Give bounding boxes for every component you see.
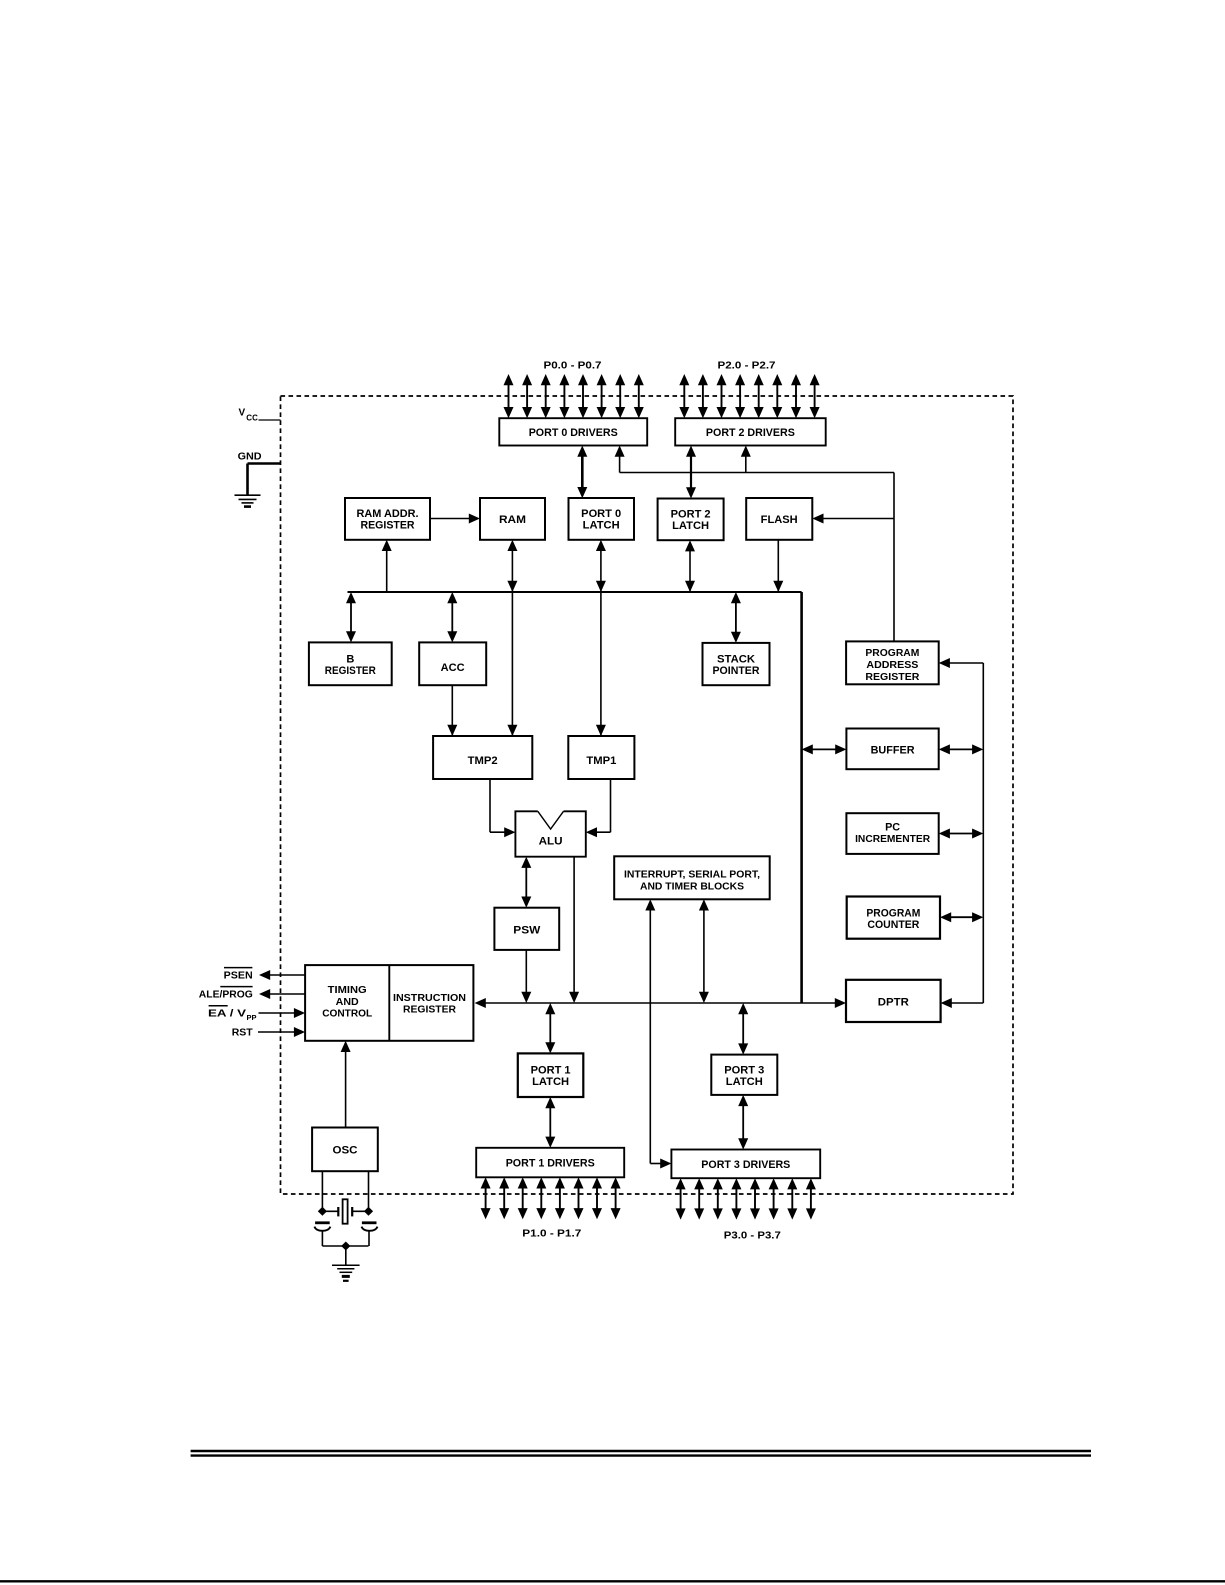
wire P1.1 pin arrow <box>499 1177 509 1219</box>
wire ALU to PSW <box>521 857 531 908</box>
wire interrupt block to control line <box>699 899 709 1003</box>
footer double rule <box>191 1451 1091 1456</box>
svg-text:PC: PC <box>885 821 900 833</box>
svg-text:REGISTER: REGISTER <box>325 665 376 677</box>
block PORT 2 DRIVERS <box>675 418 826 445</box>
block TMP1 <box>568 736 634 779</box>
svg-text:B: B <box>346 653 354 665</box>
chip boundary dashed box <box>281 396 1014 1194</box>
svg-text:REGISTER: REGISTER <box>865 671 919 683</box>
wire P3.7 pin arrow <box>806 1178 816 1219</box>
wire P1.4 pin arrow <box>555 1177 565 1219</box>
wire PORT 2 LATCH to bus <box>685 540 695 592</box>
svg-text:ALE/PROG: ALE/PROG <box>199 989 253 1001</box>
wire P1.2 pin arrow <box>518 1177 528 1219</box>
svg-text:PORT 0 DRIVERS: PORT 0 DRIVERS <box>529 427 618 439</box>
svg-text:PROGRAM: PROGRAM <box>865 647 919 659</box>
wire right address bus vertical <box>982 663 984 1003</box>
op-amp style block ALU <box>515 811 585 856</box>
svg-text:LATCH: LATCH <box>672 520 709 532</box>
wire PC INCREMENTER to right bus <box>939 829 984 839</box>
svg-text:INSTRUCTION: INSTRUCTION <box>393 992 466 1004</box>
block DPTR <box>846 980 941 1022</box>
node ALE/PROG pin <box>199 987 305 1001</box>
svg-text:BUFFER: BUFFER <box>871 744 915 756</box>
wire capacitor common <box>322 1246 368 1265</box>
wire P1.3 pin arrow <box>536 1177 546 1219</box>
svg-text:POINTER: POINTER <box>713 665 760 677</box>
svg-text:REGISTER: REGISTER <box>403 1004 456 1016</box>
block PORT 1 DRIVERS <box>476 1148 624 1178</box>
svg-text:PROGRAM: PROGRAM <box>866 908 920 920</box>
svg-text:PORT 0: PORT 0 <box>581 508 621 520</box>
wire bus to RAM ADDR. REGISTER <box>382 540 392 592</box>
wire PORT 0 DRIVERS to address bus (up arrow) <box>615 446 625 473</box>
block ACC <box>419 642 486 685</box>
junction XTAL2 node <box>364 1207 373 1216</box>
block INTERRUPT, SERIAL PORT, AND TIMER BLOCKS <box>614 856 770 899</box>
wire PORT 2 DRIVERS to PORT 2 LATCH <box>686 446 696 499</box>
wire right bus to DPTR <box>941 998 984 1008</box>
svg-text:PORT 2: PORT 2 <box>671 509 711 521</box>
svg-text:PORT 2 DRIVERS: PORT 2 DRIVERS <box>706 427 795 439</box>
svg-text:REGISTER: REGISTER <box>361 520 415 532</box>
capacitor C1 <box>314 1223 330 1246</box>
ground oscillator <box>332 1265 360 1281</box>
wire address line to PORT 2 DRIVERS (up arrow) <box>741 446 751 473</box>
crystal Y1 <box>322 1199 368 1223</box>
svg-text:RAM: RAM <box>499 514 526 526</box>
svg-text:ADDRESS: ADDRESS <box>866 659 918 671</box>
svg-text:PSW: PSW <box>513 924 541 936</box>
node EA/VPP pin <box>208 1006 305 1023</box>
wire ALU to control line <box>569 857 579 1003</box>
svg-text:P0.0 - P0.7: P0.0 - P0.7 <box>544 360 603 371</box>
block OSC <box>312 1128 378 1172</box>
wire PORT 3 LATCH to PORT 3 DRIVERS <box>738 1095 748 1150</box>
block FLASH <box>746 498 812 540</box>
wire control line to PORT 3 LATCH <box>738 1003 748 1055</box>
block PORT 2 LATCH <box>658 499 724 541</box>
svg-text:CONTROL: CONTROL <box>322 1008 373 1020</box>
wire P1.6 pin arrow <box>592 1177 602 1219</box>
block PSW <box>494 908 559 950</box>
capacitor C2 <box>362 1223 378 1246</box>
wire address line to FLASH (left arrow) <box>812 514 894 524</box>
svg-text:EA / V: EA / V <box>208 1008 246 1020</box>
svg-text:TIMING: TIMING <box>328 984 367 996</box>
wire P2.2 pin arrow <box>717 374 727 418</box>
svg-text:FLASH: FLASH <box>761 514 798 526</box>
svg-text:PORT 1 DRIVERS: PORT 1 DRIVERS <box>506 1158 595 1170</box>
wire bus to BUFFER <box>802 744 847 754</box>
ground GND symbol <box>235 495 261 506</box>
wire P3.6 pin arrow <box>787 1178 797 1219</box>
wire bus to STACK POINTER <box>731 592 741 643</box>
block STACK POINTER <box>703 643 770 685</box>
block PC INCREMENTER <box>846 813 938 854</box>
wire PSW to control line <box>521 950 531 1003</box>
wire right bus to PROGRAM ADDRESS REGISTER <box>939 658 984 668</box>
block PORT 3 LATCH <box>711 1055 777 1095</box>
wire P1.7 pin arrow <box>611 1177 621 1219</box>
wire PROGRAM COUNTER to right bus <box>940 912 983 922</box>
wire P2.3 pin arrow <box>735 374 745 418</box>
wire PORT 0 DRIVERS to PORT 0 LATCH <box>577 446 587 499</box>
svg-text:V: V <box>239 408 246 419</box>
wire P3.2 pin arrow <box>713 1178 723 1219</box>
svg-text:TMP1: TMP1 <box>586 755 616 767</box>
svg-text:STACK: STACK <box>717 654 755 666</box>
svg-text:PP: PP <box>247 1013 257 1022</box>
svg-text:INCREMENTER: INCREMENTER <box>855 833 930 845</box>
wire P0.6 pin arrow <box>615 374 625 418</box>
wire P0.3 pin arrow <box>559 374 569 418</box>
svg-text:PORT 1: PORT 1 <box>531 1065 571 1077</box>
wire bus to B REGISTER <box>346 592 356 642</box>
wire PORT 1 LATCH to PORT 1 DRIVERS <box>545 1097 555 1148</box>
wire FLASH to bus <box>773 540 783 592</box>
node GND supply <box>238 451 281 496</box>
wire TMP2 to ALU <box>490 779 515 837</box>
wire RAM ADDR. REGISTER to RAM <box>430 514 480 524</box>
block B REGISTER <box>309 642 392 685</box>
wire P0.5 pin arrow <box>597 374 607 418</box>
wire control line horizontal <box>475 998 846 1008</box>
wire XTAL2 lead <box>368 1171 370 1211</box>
wire P2.5 pin arrow <box>772 374 782 418</box>
block RAM ADDR. REGISTER <box>345 498 430 540</box>
block RAM <box>480 498 545 540</box>
node PSEN pin <box>224 968 305 982</box>
wire P3.3 pin arrow <box>731 1178 741 1219</box>
wire OSC to TIMING AND CONTROL <box>341 1041 351 1128</box>
svg-text:PORT 3 DRIVERS: PORT 3 DRIVERS <box>701 1159 790 1171</box>
svg-text:GND: GND <box>238 451 262 463</box>
wire P0.4 pin arrow <box>578 374 588 418</box>
node VCC supply <box>239 408 281 423</box>
wire P0.1 pin arrow <box>522 374 532 418</box>
wire address line horizontal <box>620 472 894 474</box>
block PORT 0 LATCH <box>569 498 635 540</box>
svg-text:COUNTER: COUNTER <box>867 919 919 931</box>
wire P0.7 pin arrow <box>634 374 644 418</box>
wire P2.7 pin arrow <box>810 374 820 418</box>
junction capacitor common node <box>341 1242 350 1251</box>
wire bus to ACC <box>447 592 457 642</box>
svg-text:PSEN: PSEN <box>224 970 253 982</box>
svg-text:RST: RST <box>232 1027 254 1039</box>
svg-text:P2.0 - P2.7: P2.0 - P2.7 <box>718 360 777 371</box>
footer bottom rule <box>0 1580 1225 1582</box>
wire RAM to bus and TMP2 <box>507 540 517 736</box>
svg-text:P3.0 - P3.7: P3.0 - P3.7 <box>724 1231 781 1242</box>
wire P1.0 pin arrow <box>481 1177 491 1219</box>
block PORT 3 DRIVERS <box>671 1150 820 1179</box>
block TMP2 <box>433 736 532 779</box>
wire P2.6 pin arrow <box>791 374 801 418</box>
wire XTAL1 lead <box>321 1171 323 1211</box>
block TIMING AND CONTROL with INSTRUCTION REGISTER <box>305 965 473 1041</box>
wire internal bus horizontal <box>348 591 802 593</box>
wire BUFFER to right bus <box>939 744 984 754</box>
svg-text:INTERRUPT, SERIAL PORT,: INTERRUPT, SERIAL PORT, <box>624 869 760 881</box>
svg-text:AND TIMER BLOCKS: AND TIMER BLOCKS <box>640 881 744 893</box>
wire P0.0 pin arrow <box>504 374 514 418</box>
svg-text:PORT 3: PORT 3 <box>724 1064 764 1076</box>
wire P0.2 pin arrow <box>541 374 551 418</box>
svg-text:RAM ADDR.: RAM ADDR. <box>357 508 419 520</box>
svg-text:LATCH: LATCH <box>532 1076 569 1088</box>
wire address line down to program address register <box>893 473 895 642</box>
svg-text:AND: AND <box>336 996 359 1008</box>
svg-text:P1.0 - P1.7: P1.0 - P1.7 <box>522 1228 582 1239</box>
wire P3.4 pin arrow <box>750 1178 760 1219</box>
block PORT 0 DRIVERS <box>499 418 647 445</box>
block PORT 1 LATCH <box>518 1053 584 1097</box>
svg-text:CC: CC <box>246 414 258 423</box>
wire TMP1 to ALU <box>586 779 611 837</box>
svg-text:TMP2: TMP2 <box>468 755 498 767</box>
svg-text:LATCH: LATCH <box>726 1076 763 1088</box>
block PROGRAM ADDRESS REGISTER <box>846 641 939 684</box>
wire P3.0 pin arrow <box>676 1178 686 1219</box>
svg-text:ACC: ACC <box>441 662 465 674</box>
svg-text:OSC: OSC <box>333 1145 358 1157</box>
wire PORT 0 LATCH to bus and TMP1 <box>596 540 606 736</box>
wire control line to PORT 1 LATCH <box>545 1003 555 1053</box>
node RST pin <box>232 1027 305 1039</box>
block PROGRAM COUNTER <box>847 897 940 939</box>
wire P2.0 pin arrow <box>679 374 689 418</box>
wire ACC to TMP2 <box>447 685 457 736</box>
wire interrupt block to PORT 3 DRIVERS <box>645 899 671 1168</box>
svg-text:LATCH: LATCH <box>583 520 620 532</box>
wire P1.5 pin arrow <box>574 1177 584 1219</box>
block BUFFER <box>846 729 938 770</box>
wire P3.5 pin arrow <box>769 1178 779 1219</box>
junction XTAL1 node <box>318 1207 327 1216</box>
wire P2.4 pin arrow <box>754 374 764 418</box>
wire P3.1 pin arrow <box>694 1178 704 1219</box>
wire P2.1 pin arrow <box>698 374 708 418</box>
svg-text:DPTR: DPTR <box>878 996 909 1008</box>
svg-text:ALU: ALU <box>539 836 563 848</box>
wire internal bus vertical <box>800 592 803 1003</box>
